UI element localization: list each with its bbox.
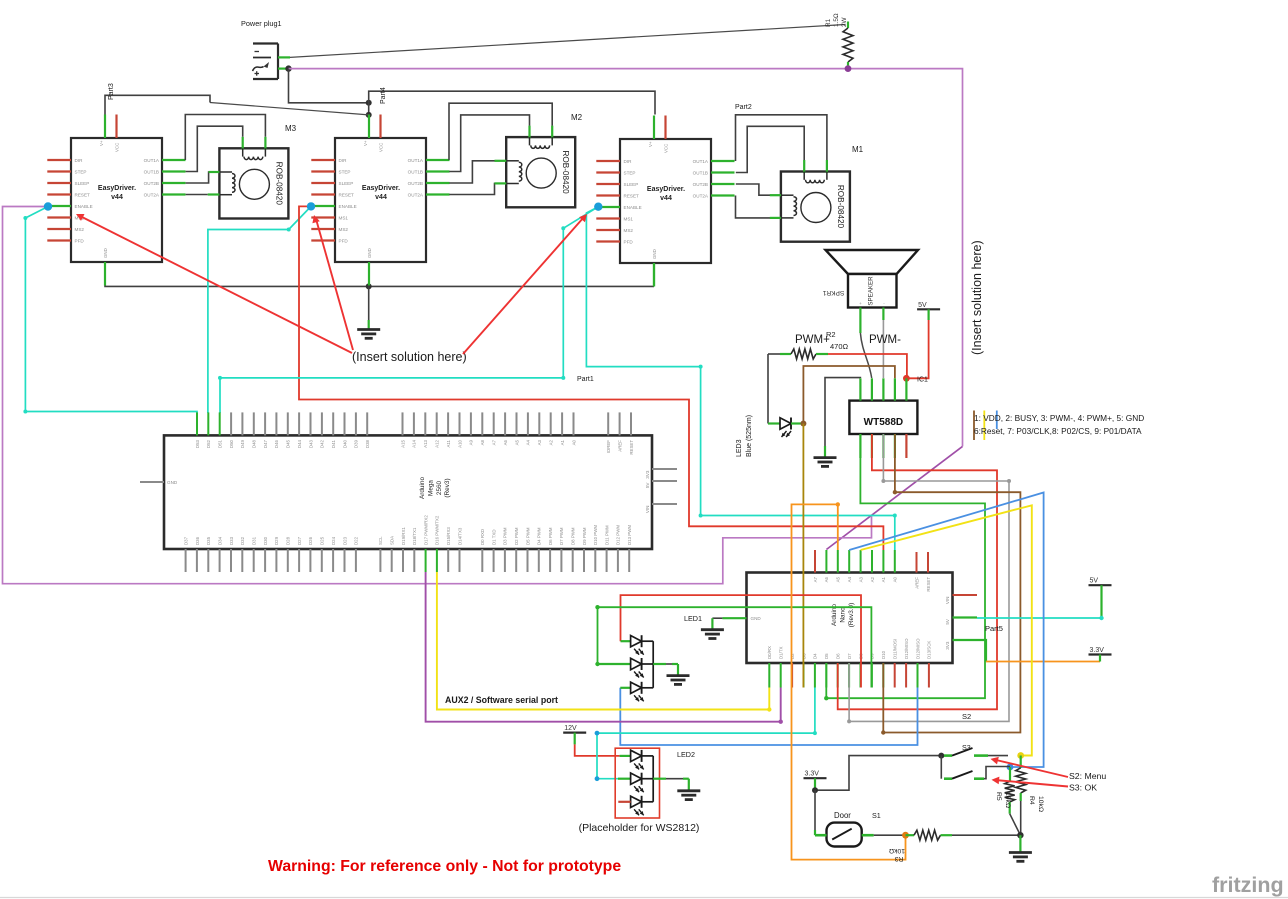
- svg-text:PFD: PFD: [75, 239, 85, 244]
- svg-text:D12/MISO: D12/MISO: [915, 638, 920, 659]
- wire ED2 OUT2B to M2 coil: [449, 161, 506, 183]
- svg-text:D13 PWM: D13 PWM: [627, 525, 632, 545]
- wire Part4 to driver3 V+: [369, 91, 655, 114]
- svg-text:OUT1A: OUT1A: [144, 158, 160, 163]
- junction Part4 upper: [366, 100, 372, 106]
- label Power plug1: [241, 19, 282, 28]
- label insert solution right: [970, 240, 984, 355]
- junction R1-purple: [845, 65, 852, 72]
- svg-text:VCC: VCC: [379, 143, 384, 152]
- wire cyan ED3 enable to Nano A0: [586, 207, 896, 550]
- power 3.3V (nano area): [1089, 647, 1112, 655]
- wire node to ground: [1019, 835, 1021, 852]
- page edge line: [0, 897, 1288, 899]
- wire Part3 diagonal: [210, 103, 369, 115]
- svg-text:M2: M2: [571, 113, 583, 122]
- power 5V (speaker area): [917, 302, 940, 310]
- svg-text:STEP: STEP: [75, 170, 87, 175]
- svg-text:D50: D50: [229, 439, 234, 448]
- svg-text:5V: 5V: [645, 482, 650, 489]
- svg-text:MS1: MS1: [339, 216, 349, 221]
- svg-text:LED1: LED1: [684, 614, 702, 623]
- svg-text:RESET: RESET: [629, 440, 634, 455]
- svg-text:STEP: STEP: [624, 171, 636, 176]
- wire ED1 OUT2A to M3 coil: [186, 194, 220, 196]
- svg-text:R3: R3: [894, 855, 903, 862]
- label S1: [872, 811, 881, 820]
- svg-text:Mega: Mega: [427, 480, 434, 496]
- svg-text:3V3: 3V3: [945, 641, 950, 650]
- label Part3: [108, 83, 115, 100]
- svg-text:Part2: Part2: [735, 104, 752, 111]
- svg-text:10kΩ: 10kΩ: [1037, 796, 1044, 812]
- label R4: [1028, 796, 1044, 812]
- svg-text:3.3V: 3.3V: [805, 771, 820, 778]
- svg-text:A1: A1: [881, 576, 886, 582]
- svg-text:ROB-08420: ROB-08420: [836, 185, 845, 229]
- label warning: [268, 858, 621, 875]
- svg-text:D19/RX1: D19/RX1: [401, 527, 406, 545]
- power 5V (nano area): [1089, 578, 1112, 586]
- label R1 value: [825, 13, 848, 27]
- svg-text:D53: D53: [195, 439, 200, 448]
- svg-text:D47: D47: [263, 439, 268, 448]
- svg-text:A5: A5: [836, 576, 841, 582]
- svg-text:STEP: STEP: [339, 170, 351, 175]
- svg-text:RESET: RESET: [339, 193, 355, 198]
- wire yellow Nano A3 to S3: [861, 505, 1032, 755]
- wire ED2 OUT2A to M2 coil: [449, 183, 506, 194]
- wire ED1 OUT1A to M3 coil: [185, 115, 265, 161]
- svg-text:D13/SCK: D13/SCK: [927, 641, 932, 659]
- svg-text:OUT2B: OUT2B: [144, 181, 159, 186]
- wire red LED1 R to Nano D8: [621, 595, 862, 687]
- svg-text:3.3V: 3.3V: [1090, 647, 1105, 654]
- wire olive LED3 to Nano D3: [802, 424, 804, 688]
- junction at power plug: [285, 65, 291, 71]
- wire red ED2 enable to Nano A1: [299, 206, 883, 550]
- svg-text:D7 PWM: D7 PWM: [559, 527, 564, 545]
- svg-text:A2: A2: [549, 439, 554, 445]
- svg-text:A4: A4: [526, 439, 531, 445]
- svg-text:OUT1B: OUT1B: [693, 171, 708, 176]
- svg-text:PFD: PFD: [339, 239, 349, 244]
- svg-text:SCL: SCL: [378, 536, 383, 545]
- svg-text:D0/RX: D0/RX: [767, 646, 772, 659]
- svg-text:D7: D7: [847, 653, 852, 659]
- label placeholder ws2812: [579, 822, 700, 834]
- svg-text:S3: S3: [962, 743, 971, 752]
- ground symbol LED2: [677, 791, 700, 800]
- svg-text:AREF: AREF: [617, 440, 622, 452]
- wire orange Nano A5 to door node: [792, 502, 906, 859]
- svg-text:R4: R4: [1028, 796, 1035, 805]
- svg-text:D11 PWM: D11 PWM: [604, 525, 609, 545]
- svg-text:AREF: AREF: [914, 577, 919, 589]
- svg-text:A2: A2: [870, 576, 875, 582]
- wire ED3 OUT1B to M1 coil: [736, 126, 804, 172]
- svg-text:EasyDriver.: EasyDriver.: [98, 185, 136, 192]
- wire ED1 OUT1B to M3 coil: [186, 126, 243, 171]
- resistor R4 10k: [1016, 756, 1026, 836]
- annotation arrow to EasyDriver1 ENABLE: [76, 214, 352, 353]
- svg-text:R1: R1: [825, 18, 832, 27]
- svg-text:D12 PWM: D12 PWM: [616, 525, 621, 545]
- svg-text:Power plug1: Power plug1: [241, 19, 282, 28]
- svg-text:ROB-08420: ROB-08420: [274, 162, 283, 206]
- power plug1 symbol: [253, 44, 279, 80]
- svg-text:D35: D35: [206, 536, 211, 545]
- svg-text:RESET: RESET: [75, 193, 91, 198]
- svg-text:D1 TXD: D1 TXD: [491, 529, 496, 545]
- svg-text:5V: 5V: [918, 302, 927, 309]
- wire brown WT588D pin4 to Nano D10: [881, 434, 1020, 735]
- svg-text:+: +: [859, 301, 862, 306]
- wire ED3 OUT1A to M1 coil: [736, 115, 827, 161]
- svg-text:D12/MISO: D12/MISO: [904, 638, 909, 659]
- wire cyan Nano D4 to LED2 G: [595, 688, 817, 782]
- wire purple left loop: [3, 207, 872, 584]
- svg-text:D43: D43: [308, 439, 313, 448]
- svg-text:SLEEP: SLEEP: [624, 182, 639, 187]
- wire ED2 OUT1B to M2 coil: [449, 115, 529, 172]
- node ED2 ENABLE: [307, 202, 315, 210]
- svg-text:VCC: VCC: [664, 144, 669, 153]
- svg-text:A3: A3: [537, 439, 542, 445]
- label LED1: [684, 614, 702, 623]
- svg-text:A4: A4: [847, 576, 852, 582]
- svg-text:D9 PWM: D9 PWM: [582, 527, 587, 545]
- svg-text:D44: D44: [297, 439, 302, 448]
- ground symbol under driver2: [357, 330, 380, 339]
- svg-text:D11/MOSI: D11/MOSI: [893, 639, 898, 659]
- label LED2: [677, 750, 695, 759]
- wire ED3 GND to bus: [653, 263, 655, 286]
- svg-text:A0: A0: [571, 439, 576, 445]
- svg-text:SLEEP: SLEEP: [75, 181, 90, 186]
- label Part4: [380, 87, 387, 104]
- svg-text:RESET: RESET: [624, 194, 640, 199]
- svg-text:Nano: Nano: [839, 607, 846, 623]
- LED1 blue: [620, 682, 643, 702]
- svg-text:470Ω: 470Ω: [830, 342, 849, 351]
- svg-text:GND: GND: [167, 480, 178, 485]
- svg-text:D16 PWM/TX2: D16 PWM/TX2: [435, 515, 440, 545]
- junction 3.3V node: [812, 787, 818, 793]
- ground symbol LED1: [667, 676, 690, 685]
- wire driver2 GND to ground: [368, 286, 370, 328]
- svg-text:AUX2 / Software serial port: AUX2 / Software serial port: [445, 695, 558, 705]
- svg-text:D4: D4: [813, 653, 818, 659]
- node ED3 ENABLE: [594, 203, 602, 211]
- svg-text:LED3: LED3: [736, 439, 743, 457]
- LED2 green: [618, 773, 644, 793]
- svg-text:D10: D10: [881, 650, 886, 659]
- svg-text:GND: GND: [103, 248, 108, 258]
- svg-text:PFD: PFD: [624, 240, 634, 245]
- svg-text:5V: 5V: [945, 618, 950, 625]
- label M2: [571, 113, 583, 122]
- svg-text:ROB-08420: ROB-08420: [561, 150, 570, 194]
- wire green LED1 G to Nano D9: [595, 605, 871, 688]
- svg-text:OUT2B: OUT2B: [693, 182, 708, 187]
- svg-text:MS1: MS1: [624, 217, 634, 222]
- svg-text:D15/RX3: D15/RX3: [446, 527, 451, 545]
- label WT588D pinout line1: [974, 413, 1144, 423]
- svg-text:VIN: VIN: [645, 506, 650, 514]
- svg-text:WT588D: WT588D: [864, 417, 903, 428]
- arduino mega 2560: [140, 412, 677, 572]
- svg-text:A12: A12: [435, 439, 440, 447]
- svg-text:D27: D27: [297, 536, 302, 545]
- annotation arrow S3 OK: [992, 777, 1069, 787]
- ground symbol door: [1009, 853, 1032, 862]
- svg-text:D5: D5: [824, 653, 829, 659]
- svg-text:Door: Door: [834, 811, 851, 820]
- wire node to driver2 V+: [368, 103, 370, 115]
- svg-text:1: VDD, 2: BUSY, 3: PWM-, 4: P: 1: VDD, 2: BUSY, 3: PWM-, 4: PWM+, 5: GN…: [974, 413, 1144, 423]
- LED2 blue unconnected stub: [618, 801, 630, 803]
- svg-text:A3: A3: [858, 576, 863, 582]
- ground symbol Nano: [701, 630, 724, 639]
- svg-text:OUT1B: OUT1B: [144, 170, 159, 175]
- label PWM+: [795, 334, 830, 346]
- wire ED2 OUT1A to M2 coil: [449, 103, 552, 160]
- label IC1: [917, 377, 928, 384]
- svg-text:VIN: VIN: [945, 597, 950, 605]
- wire purple Mega D17 to Nano D1 (AUX2): [426, 572, 783, 724]
- svg-text:D18/TX1: D18/TX1: [412, 527, 417, 545]
- svg-text:D37: D37: [183, 536, 188, 545]
- svg-text:M3: M3: [285, 124, 297, 133]
- svg-text:MS2: MS2: [624, 228, 634, 233]
- easydriver U2 (middle): [311, 115, 449, 286]
- annotation arrow to EasyDriver3 ENABLE: [463, 214, 587, 354]
- svg-text:D3 PWM: D3 PWM: [503, 527, 508, 545]
- svg-text:D34: D34: [217, 536, 222, 545]
- resistor R2 470 ohm: [780, 349, 828, 359]
- svg-text:D14/TX3: D14/TX3: [457, 527, 462, 545]
- power 12V: [563, 725, 586, 733]
- svg-text:DIR: DIR: [339, 158, 348, 163]
- svg-text:(Placeholder for WS2812): (Placeholder for WS2812): [579, 822, 700, 834]
- svg-text:Part1: Part1: [577, 376, 594, 383]
- svg-text:D1/TX: D1/TX: [779, 646, 784, 659]
- svg-text:MS2: MS2: [339, 227, 349, 232]
- svg-text:LED2: LED2: [677, 750, 695, 759]
- svg-text:D8 PWM: D8 PWM: [571, 527, 576, 545]
- svg-text:MS2: MS2: [75, 227, 85, 232]
- junction IC1 VDD: [903, 375, 910, 382]
- svg-text:(Insert solution here): (Insert solution here): [970, 240, 984, 355]
- wire LED1 to ground: [653, 664, 678, 676]
- wire R2 to LED3 anode: [768, 354, 780, 424]
- svg-text:A6: A6: [503, 439, 508, 445]
- svg-text:RESET: RESET: [926, 577, 931, 592]
- svg-text:1.5Ω: 1.5Ω: [833, 13, 840, 27]
- svg-text:D24: D24: [331, 536, 336, 545]
- wire brown LED3 to WT588D pin4: [803, 366, 895, 424]
- svg-text:OUT2A: OUT2A: [693, 194, 709, 199]
- svg-text:A10: A10: [457, 439, 462, 447]
- wire 3.3V to switches: [815, 756, 941, 791]
- wire WT588D pin1 to ground: [825, 378, 860, 458]
- svg-text:D32: D32: [240, 536, 245, 545]
- svg-text:v44: v44: [375, 194, 387, 201]
- wire door to R3: [874, 834, 906, 836]
- wire R2 to IC1 VDD node: [828, 354, 907, 378]
- svg-text:R5: R5: [995, 792, 1002, 801]
- svg-text:EasyDriver.: EasyDriver.: [362, 185, 400, 192]
- svg-text:A7: A7: [492, 439, 497, 445]
- wire cyan ED3 enable to Mega D51: [218, 207, 598, 413]
- svg-text:SPKR1: SPKR1: [822, 289, 844, 296]
- svg-text:D46: D46: [274, 439, 279, 448]
- svg-text:A7: A7: [813, 576, 818, 582]
- LED2 red: [620, 750, 644, 770]
- svg-text:D40: D40: [342, 439, 347, 448]
- svg-text:A8: A8: [480, 439, 485, 445]
- door switch S1: [815, 823, 874, 847]
- fritzing watermark: [1212, 873, 1284, 897]
- junction LED3 cathode: [800, 421, 806, 427]
- IC U2 WT588D: [849, 378, 917, 458]
- svg-text:PWM-: PWM-: [869, 334, 901, 346]
- svg-text:IOREF: IOREF: [606, 440, 611, 454]
- switch S3: [944, 748, 1008, 756]
- svg-text:OUT1A: OUT1A: [408, 158, 424, 163]
- svg-text:D4 PWM: D4 PWM: [537, 527, 542, 545]
- wire yellow Mega D16 to Nano D0 (AUX2): [437, 572, 772, 712]
- junction driver2 GND on bus: [366, 283, 372, 289]
- resistor R1 1.5 ohm: [843, 22, 853, 70]
- wire plug down to Part4 node: [289, 69, 369, 103]
- label S2 net: [962, 712, 971, 721]
- svg-text:A15: A15: [400, 439, 405, 447]
- svg-text:S1: S1: [872, 811, 881, 820]
- LED3 blue: [768, 418, 803, 438]
- svg-text:ENABLE: ENABLE: [75, 204, 93, 209]
- svg-text:D23: D23: [342, 536, 347, 545]
- easydriver U3 (right): [596, 116, 734, 287]
- svg-text:GND: GND: [652, 249, 657, 259]
- wire ED1 OUT2B to M3 coil: [186, 172, 220, 183]
- svg-text:OUT1B: OUT1B: [408, 170, 423, 175]
- svg-text:EasyDriver.: EasyDriver.: [647, 186, 685, 193]
- wire speaker+ to WT588D pin2: [860, 308, 871, 379]
- svg-text:A1: A1: [560, 439, 565, 445]
- label (Insert solution here): [352, 350, 467, 364]
- LED2 blue: [631, 796, 644, 816]
- svg-text:12V: 12V: [564, 725, 577, 732]
- svg-text:A0: A0: [893, 576, 898, 582]
- svg-text:V+: V+: [363, 140, 368, 146]
- svg-text:D6 PWM: D6 PWM: [548, 527, 553, 545]
- svg-text:S2: Menu: S2: Menu: [1069, 771, 1106, 781]
- label S3 OK: [1069, 783, 1097, 793]
- wire green WT588D pin1 to Nano D5: [824, 434, 985, 700]
- ground symbol WT588D: [814, 458, 837, 467]
- label Part5: [985, 624, 1003, 633]
- svg-text:D33: D33: [229, 536, 234, 545]
- label M1: [852, 145, 864, 154]
- speaker SPKR1: [822, 250, 918, 308]
- svg-text:D29: D29: [274, 536, 279, 545]
- svg-text:GND: GND: [367, 248, 372, 258]
- svg-text:D52: D52: [206, 439, 211, 448]
- svg-text:R2: R2: [826, 330, 836, 339]
- svg-text:6:Reset, 7: P03/CLK,8: P02/CS,: 6:Reset, 7: P03/CLK,8: P02/CS, 9: P01/DA…: [974, 426, 1142, 436]
- svg-text:D30: D30: [263, 536, 268, 545]
- svg-text:V+: V+: [99, 140, 104, 146]
- wire red WT588D pin2 to Nano D6: [838, 434, 997, 709]
- wire ED3 OUT2A to M1 coil: [736, 196, 781, 218]
- label PWM-: [869, 334, 901, 346]
- junction orange R3: [902, 832, 909, 839]
- svg-text:D39: D39: [354, 439, 359, 448]
- svg-text:10kΩ: 10kΩ: [889, 847, 905, 854]
- wire cyan ED2 enable to Mega D52: [208, 206, 311, 413]
- svg-text:ENABLE: ENABLE: [624, 205, 642, 210]
- svg-text:10kΩ: 10kΩ: [1004, 792, 1011, 808]
- wire ground bus: [105, 262, 654, 286]
- svg-text:S3: OK: S3: OK: [1069, 783, 1097, 793]
- power 3.3V (door area): [804, 771, 827, 779]
- svg-text:Arduino: Arduino: [419, 477, 426, 499]
- svg-text:Blue (525nm): Blue (525nm): [746, 415, 753, 457]
- svg-text:(Insert solution here): (Insert solution here): [352, 350, 467, 364]
- wire Nano 5V to 5V rail: [953, 585, 1104, 620]
- wire blue Nano A4 to S2: [849, 493, 1043, 768]
- svg-text:GND: GND: [751, 616, 762, 621]
- junction ground node: [1017, 832, 1023, 838]
- svg-text:D10 PWM: D10 PWM: [593, 525, 598, 545]
- svg-text:A5: A5: [514, 439, 519, 445]
- svg-text:Part4: Part4: [380, 87, 387, 104]
- wire purple plug bus: [289, 69, 963, 447]
- label M3: [285, 124, 297, 133]
- svg-text:A11: A11: [446, 439, 451, 447]
- svg-text:v44: v44: [111, 194, 123, 201]
- easydriver U1 (left): [47, 115, 185, 286]
- svg-text:A14: A14: [412, 439, 417, 447]
- svg-text:SDA: SDA: [390, 536, 395, 545]
- label R5: [995, 792, 1011, 808]
- annotation arrow S2 Menu: [991, 757, 1069, 777]
- stepper motor M1: [781, 160, 850, 242]
- wire S3 left to S2 left: [940, 756, 942, 779]
- svg-text:D0 RXD: D0 RXD: [480, 529, 485, 545]
- svg-text:(Rev3): (Rev3): [444, 478, 451, 497]
- svg-text:2560: 2560: [436, 480, 443, 495]
- svg-text:OUT2A: OUT2A: [144, 193, 160, 198]
- svg-text:DIR: DIR: [624, 159, 633, 164]
- svg-text:D49: D49: [240, 439, 245, 448]
- svg-text:OUT2A: OUT2A: [408, 193, 424, 198]
- svg-text:D41: D41: [331, 439, 336, 448]
- wire 12V to LED2 R: [575, 733, 620, 756]
- label Part2: [735, 104, 752, 111]
- svg-text:5V: 5V: [1090, 578, 1099, 585]
- svg-text:SPEAKER: SPEAKER: [868, 276, 875, 306]
- svg-text:OUT1A: OUT1A: [693, 159, 709, 164]
- wire speaker- to WT588D pin3: [882, 308, 884, 379]
- wire Nano 3V3 to 3.3V rail: [953, 640, 1101, 662]
- svg-text:D38: D38: [365, 439, 370, 448]
- label AUX2: [445, 695, 558, 705]
- svg-text:A13: A13: [423, 439, 428, 447]
- svg-text:D36: D36: [195, 536, 200, 545]
